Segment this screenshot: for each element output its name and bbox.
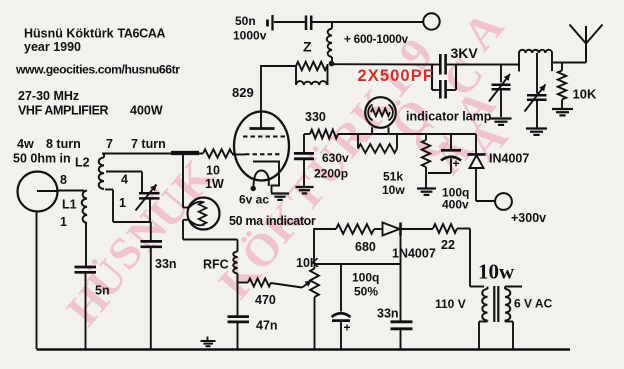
ground (under 630v cap) [296,186,314,188]
capacitor C 50n 1000v (plates at left end of B+ line) [266,20,269,27]
svg-text:400v: 400v [442,198,469,212]
resistor 330 [310,130,338,139]
svg-text:1: 1 [60,215,67,229]
transformer primary 110 V [470,286,484,288]
wire lamp to RFC [182,220,184,240]
svg-text:TA6CAA: TA6CAA [118,27,166,41]
svg-text:50n: 50n [235,14,256,28]
svg-text:6 V AC: 6 V AC [514,297,553,311]
diode IN4007 (to +300v) [475,134,477,154]
svg-text:4: 4 [121,173,128,187]
svg-text:2200p: 2200p [314,167,348,181]
svg-text:7 turn: 7 turn [131,137,166,151]
ground (under bleeder) [417,187,436,189]
lamp 50 ma indicator [183,207,189,209]
svg-text:50 0hm in: 50 0hm in [13,152,71,166]
tube 829 screen line [253,162,279,193]
inductor RFC [233,252,237,274]
wire L1 to 5n [85,223,87,267]
terminal 50 ohm input (circle) [18,172,58,212]
svg-text:+: + [453,157,460,171]
resistor 51k 10w (parallel with lamp) [357,134,359,149]
wire 680 to diode [374,228,383,230]
svg-text:1W: 1W [205,177,224,191]
wire 22 to transformer [457,228,470,230]
variable capacitor tank C1 [500,65,502,83]
svg-text:33n: 33n [377,307,399,321]
transformer core [493,286,495,322]
svg-text:8: 8 [60,173,67,187]
inductor parasitic suppressor (scallops) [296,81,327,85]
lamp indicator (top) [365,97,396,128]
transformer secondary 6 V AC [505,286,522,288]
svg-text:www.geocities.com/husnu66tr: www.geocities.com/husnu66tr [15,63,180,77]
ground (under 10K) [552,108,573,110]
wire RFC to 47n and 470 [237,274,239,317]
wire bias network top-left corner [314,229,336,264]
resistor bleeder (vertical, under lamp line) [425,134,427,140]
wire lamp network horizontal [358,133,476,135]
ground (under tank C2) [526,127,547,129]
wire tank to antenna node [552,62,586,64]
terminal +300v (circle) [495,193,512,210]
svg-text:Hüsnü Köktürk: Hüsnü Köktürk [24,27,114,41]
wire tap network down to 33n [150,222,152,241]
svg-text:Z: Z [303,39,312,55]
tube 829 plate bar [250,127,275,130]
capacitor 100q 50% (electrolytic) [340,264,342,312]
ground (tube cathode) [271,192,289,194]
svg-text:51k: 51k [383,170,403,184]
potentiometer 10K (bias) [314,264,316,269]
wire from 829 plate [261,65,296,67]
wire grid line (7 turn tap to 10 ohm) [102,153,203,155]
svg-text:10: 10 [206,164,220,178]
node plate junction (dot) [329,61,335,67]
wire L2 tap 1 [105,189,113,191]
wire input terminal down to rail [36,212,38,350]
svg-text:100q: 100q [352,271,379,285]
ground (under tank C1) [491,117,512,119]
wire wiper arrow to pot [302,281,312,288]
wire suppressor end verticals [295,66,297,85]
tube 829 grid 1 (dashed) [243,136,288,138]
wire B+ line right segment [313,21,424,23]
svg-text:22: 22 [441,238,455,252]
svg-text:2X500PF: 2X500PF [358,67,435,85]
wire input to L1 [58,190,85,192]
tube 829 envelope [234,112,289,181]
resistor 22 [433,224,457,233]
svg-text:year 1990: year 1990 [24,40,81,54]
resistor 10K (output bleeder) [561,63,563,71]
svg-text:1000v: 1000v [233,29,267,43]
capacitor 47n [228,315,250,318]
svg-text:6v ac: 6v ac [239,193,269,207]
ground (chassis mark near rail) [207,337,209,341]
svg-text:10K: 10K [573,87,597,102]
svg-text:10w: 10w [382,183,405,197]
svg-text:4w: 4w [17,137,34,151]
wire grid line thick segment [171,151,199,155]
svg-text:3KV: 3KV [451,45,479,61]
wire tank coil tap [536,53,538,94]
wire diode to 22 [401,228,434,230]
variable capacitor input tuning [141,172,143,193]
tube 829 grid 2 (dashed) [232,154,245,156]
svg-text:630v: 630v [322,151,349,165]
svg-text:5n: 5n [95,284,110,298]
svg-text:RFC: RFC [203,258,229,272]
capacitor 5n [75,266,97,269]
inductor L2 [103,154,105,158]
variable capacitor tank C2 [527,94,547,97]
tube 829 cathode/heater arc [254,171,269,188]
svg-text:IN4007: IN4007 [489,152,529,166]
capacitor 630v 2200p [294,152,314,155]
svg-text:L2: L2 [75,156,90,170]
inductor L1 [82,191,87,224]
wire 330 to lamp network [338,133,358,135]
svg-text:33n: 33n [155,257,177,271]
resistor 470 [238,282,249,284]
svg-text:7: 7 [106,137,113,151]
svg-text:400W: 400W [130,104,163,118]
svg-text:1N4007: 1N4007 [392,247,436,261]
svg-text:829: 829 [232,85,254,100]
svg-text:+ 600-1000v: + 600-1000v [344,32,409,46]
resistor parasitic suppressor (zigzag) [296,62,327,70]
wire grid tap down to lamp [182,154,184,208]
svg-text:50%: 50% [354,285,378,299]
svg-text:330: 330 [305,110,326,124]
inductor Z (plate RF choke) [331,22,333,29]
svg-text:1: 1 [119,196,126,210]
wire ground rail (bottom) [37,348,571,351]
svg-text:470: 470 [255,293,276,307]
inductor tank coil [518,53,520,72]
svg-text:10w: 10w [478,260,515,284]
wire bias bus [314,263,401,265]
heater terminal dot (6v ac) [251,186,256,191]
resistor 10 1W (grid stopper) [203,149,232,157]
capacitor (series blocking cap on B+ line) [305,16,308,31]
svg-text:VHF AMPLIFIER: VHF AMPLIFIER [18,104,109,118]
svg-text:50 ma indicator: 50 ma indicator [229,214,316,228]
diode 1N4007 (bias) [383,223,400,236]
resistor 680 [336,224,374,234]
svg-text:27-30 MHz: 27-30 MHz [18,89,79,103]
wire diode to +300v terminal [476,200,496,202]
svg-text:+300v: +300v [511,211,546,225]
capacitor 33n (bias filter) [400,236,402,322]
capacitor 100q 400v (electrolytic) [450,134,452,149]
svg-text:indicator lamp: indicator lamp [406,110,492,124]
svg-text:680: 680 [355,240,376,254]
capacitor 2X500PF 3KV (two parallel caps) [432,64,439,66]
terminal + 600-1000v (circle) [423,13,439,29]
svg-text:10K: 10K [296,256,319,270]
watermark HÜSNÜ KÖKTÜRK TA6CAA (pink diagonal letters) [57,2,517,335]
svg-text:47n: 47n [256,319,278,333]
wire B+ line left segment [274,21,305,23]
wire L2 tap 4 [106,171,142,173]
antenna [585,26,587,63]
svg-text:8 turn: 8 turn [46,137,81,151]
svg-text:+: + [344,321,351,335]
svg-text:110 V: 110 V [435,297,466,311]
svg-text:L1: L1 [62,198,77,212]
wire coupling caps to output tank [456,64,519,66]
wire plate node to coupling caps [331,63,432,65]
capacitor 33n (input side) [141,240,163,243]
wire screen junction vertical [303,134,305,152]
